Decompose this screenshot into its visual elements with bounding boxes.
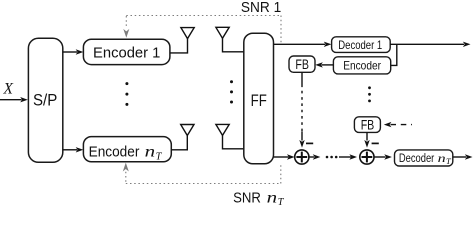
minus sign at summer 1	[306, 142, 313, 144]
svg-text:n: n	[438, 151, 446, 165]
svg-text:SNR: SNR	[233, 189, 261, 205]
dotted SNR nT feedback path	[126, 164, 281, 183]
block S/P	[28, 38, 62, 162]
block FF	[244, 33, 274, 164]
svg-text:S/P: S/P	[33, 91, 57, 110]
wire Decoder 1 output arrow	[390, 42, 470, 47]
svg-text:Encoder: Encoder	[343, 59, 381, 73]
block Encoder (receiver)	[333, 57, 390, 74]
summer 1 (plus circle)	[295, 150, 309, 164]
wire Encoder to FB arrow (leftward)	[315, 62, 333, 67]
wire FB1 dashed line down to summer 1	[301, 72, 303, 140]
antenna T2	[181, 125, 194, 136]
antenna T1	[181, 28, 194, 39]
wire summer1 out arrow then dots	[309, 154, 321, 159]
wire dashed input into FB2	[384, 122, 412, 127]
antenna R2	[216, 124, 229, 135]
block FB 1	[289, 56, 315, 72]
label SNR nT	[233, 189, 285, 208]
dots between summers	[326, 156, 338, 159]
wire Decoder nT output arrow	[453, 154, 473, 159]
wire FF to Decoder 1	[274, 42, 332, 47]
svg-text:FF: FF	[251, 91, 267, 110]
dots between receive antennas	[230, 80, 233, 103]
wire antenna R1 to FF	[223, 38, 244, 52]
dots between encoders	[125, 82, 128, 106]
block Decoder 1	[332, 37, 391, 53]
block Encoder 1	[83, 39, 169, 64]
svg-text:Encoder 1: Encoder 1	[93, 44, 160, 61]
svg-text:FB: FB	[295, 57, 309, 72]
wire FF to summer 1	[274, 154, 295, 159]
svg-text:n: n	[267, 189, 278, 205]
wire summer 2 to Decoder nT	[374, 154, 392, 159]
wire FB2 down to summer 2	[366, 132, 368, 140]
wire arrow into summer 2	[339, 154, 357, 159]
gray arrowhead into Encoder nT bottom	[123, 163, 129, 172]
svg-text:FB: FB	[361, 117, 375, 132]
block Encoder nT	[83, 137, 171, 163]
svg-text:n: n	[145, 143, 156, 160]
block FB 2	[354, 117, 380, 133]
wire S/P to Encoder 1	[63, 49, 84, 54]
svg-text:Decoder: Decoder	[399, 153, 435, 165]
svg-text:SNR 1: SNR 1	[241, 0, 281, 16]
antenna R1	[216, 27, 229, 38]
wire antenna R2 to FF	[223, 135, 244, 148]
minus sign at summer 2	[372, 142, 379, 144]
wire branch from Decoder 1 output down to Encoder	[391, 44, 397, 65]
svg-text:X: X	[3, 81, 14, 98]
svg-text:Decoder 1: Decoder 1	[338, 38, 382, 52]
wire input arrow into S/P	[0, 97, 28, 102]
svg-text:Encoder: Encoder	[89, 143, 140, 160]
dots above FB2	[368, 86, 371, 102]
dotted SNR 1 feedback path	[126, 16, 281, 43]
wire S/P to Encoder nT	[63, 147, 84, 152]
summer 2 (plus circle)	[360, 150, 374, 164]
wire Encoder nT to antenna T2	[171, 135, 187, 150]
wire Encoder 1 to antenna T1	[170, 38, 188, 53]
gray arrowhead into Encoder 1 top	[123, 29, 129, 38]
block Decoder nT	[395, 150, 453, 166]
